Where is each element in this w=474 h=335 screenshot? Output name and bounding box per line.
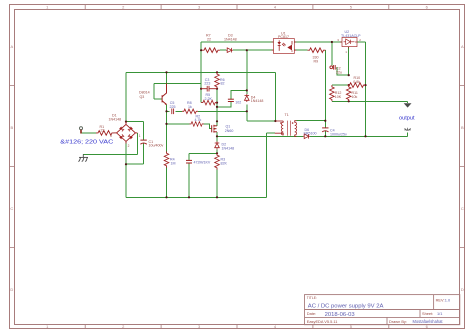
wire ground line [83, 153, 137, 155]
wire D4 bottom lead [246, 104, 248, 111]
wire bridge top vertex up [125, 72, 127, 121]
wire C1 to bridge bottom [126, 163, 144, 165]
wire Q3 emitter down [166, 105, 168, 152]
capacitor C4 [322, 128, 328, 132]
svg-text:R9: R9 [314, 60, 319, 64]
node U2 ref [348, 74, 350, 76]
wire flag stem [407, 133, 409, 137]
svg-text:2N60: 2N60 [225, 129, 234, 133]
resistor R2 [190, 122, 204, 127]
node Q1 source [216, 135, 218, 137]
node R5 right [216, 102, 218, 104]
svg-text:Date:: Date: [307, 311, 316, 316]
wire U1 pin4 to U2 pin3 [294, 41, 342, 43]
svg-text:22: 22 [207, 38, 211, 42]
wire R8 to drain node [198, 110, 217, 112]
svg-text:EasyEDA V5.5.11: EasyEDA V5.5.11 [307, 319, 338, 324]
resistor R12 [330, 85, 335, 101]
capacitor 472M/1KV [186, 160, 192, 163]
wire bridge top to C1 [126, 121, 144, 123]
svg-text:B: B [10, 125, 13, 130]
svg-text:C: C [461, 206, 464, 211]
svg-text:1000u/25v: 1000u/25v [330, 132, 347, 136]
capacitor C5 [172, 109, 174, 115]
diode D6 [303, 134, 310, 139]
node Vout plus [324, 120, 326, 122]
wire Q3 base lead [154, 98, 162, 100]
ground [78, 154, 88, 161]
wire secondary top to Vout+ [297, 120, 326, 122]
wire drain node to snubber [217, 110, 247, 112]
mosfet Q1 [212, 125, 217, 133]
frame column ticks bottom [85, 325, 389, 329]
wire R2 to gate [204, 124, 212, 128]
capacitor C2 [330, 65, 335, 70]
node R2 line [165, 123, 167, 125]
wire corner down to R7 node [200, 42, 202, 50]
resistor R11 [346, 85, 351, 101]
frame row ticks left [9, 86, 14, 248]
wire C5 to R8 [176, 110, 182, 112]
node R3 top [216, 152, 218, 154]
svg-text:225: 225 [170, 105, 176, 109]
wire sense cap line [189, 152, 217, 154]
svg-text:22: 22 [101, 129, 105, 133]
frame column ticks top [85, 5, 389, 10]
transformer T1 [275, 121, 283, 135]
svg-text:1N4148: 1N4148 [251, 99, 264, 103]
node bus cap [188, 196, 190, 198]
resistor R7 [202, 48, 220, 53]
svg-text:D8014: D8014 [139, 91, 150, 95]
svg-text:2: 2 [128, 144, 130, 148]
svg-text:PC817: PC817 [278, 35, 289, 39]
node snubber top [246, 89, 248, 91]
node bus R4 [165, 196, 167, 198]
resistor R10 [348, 83, 366, 88]
svg-text:2.2K: 2.2K [205, 97, 213, 101]
wire C5 lead left [167, 110, 170, 112]
wire C2 right elbow [336, 67, 348, 75]
net flag output arrow [404, 103, 412, 107]
resistor R3 [215, 153, 220, 169]
node C2 branch [331, 41, 333, 43]
wire R3 bottom to bus [216, 170, 218, 198]
node C3 left [200, 88, 202, 90]
svg-text:3: 3 [110, 134, 112, 138]
svg-text:1/1: 1/1 [437, 311, 442, 316]
wire U2 pin2 right [357, 41, 366, 43]
svg-text:1M: 1M [171, 161, 176, 165]
svg-text:2018-06-03: 2018-06-03 [325, 312, 355, 318]
wire +rail [126, 71, 275, 73]
svg-text:D: D [10, 287, 13, 292]
shunt regulator U2 [340, 37, 357, 48]
node return line [364, 135, 366, 137]
wire sense cap bottom lead [188, 163, 190, 197]
node snubber bottom [246, 110, 248, 112]
resistor R4 [164, 151, 169, 167]
wire U2 cathode vertical [365, 42, 367, 136]
terminal 220VAC input [80, 127, 83, 130]
power flag +5V [404, 128, 411, 131]
svg-text:223: 223 [204, 82, 210, 86]
svg-text:1N4148: 1N4148 [109, 117, 122, 121]
svg-text:T1: T1 [285, 113, 289, 117]
svg-text:10k: 10k [352, 95, 358, 99]
svg-text:10K: 10K [335, 95, 342, 99]
wire U2 pin1 down [348, 47, 350, 75]
svg-text:1k: 1k [188, 105, 192, 109]
svg-text:1N4148: 1N4148 [222, 146, 235, 150]
svg-text:A: A [10, 44, 13, 49]
node R10 right [364, 84, 366, 86]
svg-text:0.8k: 0.8k [353, 80, 360, 84]
node R10 left [348, 84, 350, 86]
wire Q3 base L horizontal top [154, 82, 201, 84]
frame column numbers [46, 5, 429, 329]
diode D4 [245, 94, 250, 102]
svg-text:A: A [461, 44, 464, 49]
wire C4 top lead [324, 121, 326, 128]
wire bottom bus [126, 196, 266, 198]
wire Q3 collector from rail [166, 72, 168, 83]
capacitor C1 [140, 140, 146, 144]
svg-text:4.7k: 4.7k [195, 118, 202, 122]
node C4 bottom [324, 135, 326, 137]
wire sense cap top lead [188, 153, 190, 160]
node primary top [274, 120, 276, 122]
svg-text:C: C [10, 206, 13, 211]
capacitor C3 [201, 86, 217, 92]
wire R5 node vertical x217 [216, 89, 218, 126]
svg-text:SR5100: SR5100 [304, 131, 317, 135]
wire bridge bottom down [125, 141, 127, 197]
wire divider bottom line A [332, 100, 408, 102]
wire neutral up [136, 133, 138, 154]
wire R9 down to Vout+ [324, 50, 326, 121]
svg-text:&#126; 220 VAC: &#126; 220 VAC [60, 140, 114, 146]
svg-text:B: B [461, 125, 464, 130]
svg-text:Sheet:: Sheet: [422, 311, 433, 316]
resistor R5 [201, 100, 217, 105]
wire secondary return long line left part [217, 135, 303, 137]
wire D4 top lead [246, 50, 248, 94]
node gate top [216, 120, 218, 122]
svg-text:102: 102 [235, 100, 241, 104]
svg-text:82K: 82K [221, 161, 228, 165]
wire C2 left vertical [331, 42, 333, 65]
svg-text:22u: 22u [336, 70, 342, 74]
wire R2 line left [167, 123, 190, 125]
wire C1 top lead [143, 122, 145, 140]
wire snubber cap bottom lead [217, 102, 231, 107]
wire R4 bottom to bus [166, 168, 168, 198]
wire U1 pin3 to R9 [294, 49, 307, 51]
wire Q1 source down [216, 132, 218, 142]
svg-text:Mostafaelshahat: Mostafaelshahat [413, 319, 444, 324]
wire D3 to U1 pin2 [233, 49, 274, 51]
node C1 minus [125, 163, 127, 165]
svg-text:D: D [461, 287, 464, 292]
svg-text:1.0: 1.0 [445, 298, 451, 303]
svg-text:Q3: Q3 [140, 95, 145, 99]
resistor R9 [308, 48, 326, 53]
svg-text:TL431ACLP: TL431ACLP [341, 34, 361, 38]
diode D3 [226, 48, 233, 53]
wire C1 bottom lead [143, 143, 145, 164]
wire R7 to D3 [220, 49, 226, 51]
wire divider top line [332, 84, 348, 86]
wire snubber link down [246, 111, 248, 121]
svg-text:Drawn By:: Drawn By: [389, 319, 407, 324]
svg-text:1: 1 [139, 134, 141, 138]
svg-text:output: output [399, 116, 415, 122]
svg-text:REV:: REV: [436, 298, 445, 303]
wire bus up to primary bottom [265, 133, 267, 197]
wire Q3 base L vertical [153, 83, 155, 99]
optocoupler U1 [272, 39, 297, 54]
node bus R3 [216, 196, 218, 198]
title block [305, 295, 460, 325]
wire snubber cap top L [231, 90, 247, 99]
node C3 right [216, 88, 218, 90]
wire rail down to transformer [274, 72, 276, 121]
resistor R1 [96, 131, 114, 136]
wire input to R1 [81, 132, 97, 134]
svg-text:AC / DC power supply 9V 2A: AC / DC power supply 9V 2A [308, 303, 384, 309]
node D3 out [246, 49, 248, 51]
node drain link [216, 106, 218, 108]
resistor R6 [215, 72, 220, 88]
wire vertical x201 [200, 50, 202, 102]
diode D2 [215, 141, 220, 149]
wire output arrow stub [407, 101, 409, 103]
node rail Q3 [165, 71, 167, 73]
node R7 left [200, 49, 202, 51]
wire to primary bottom pin [266, 132, 275, 134]
svg-text:TITLE:: TITLE: [307, 296, 317, 300]
svg-text:10u/400v: 10u/400v [149, 144, 164, 148]
capacitor 102 [228, 99, 234, 101]
resistor R8 [182, 109, 198, 114]
diode bridge D1 [114, 122, 138, 144]
wire secondary return long line right part [310, 135, 408, 137]
svg-text:82: 82 [221, 82, 225, 86]
node rail R6 [216, 71, 218, 73]
wire D2 to R3 [216, 149, 218, 153]
wire U1 pin1 line [201, 41, 273, 43]
svg-text:1N4148: 1N4148 [224, 38, 237, 42]
transistor Q3 [162, 83, 166, 104]
frame row letters [10, 44, 464, 292]
svg-text:472M/1KV: 472M/1KV [194, 161, 211, 165]
node bridge top [125, 121, 127, 123]
wire snubber link right [247, 120, 276, 122]
node R11 bottom [348, 100, 350, 102]
wire C4 bottom lead [324, 131, 326, 136]
node C5 line [165, 110, 167, 112]
frame row ticks right [460, 86, 465, 248]
